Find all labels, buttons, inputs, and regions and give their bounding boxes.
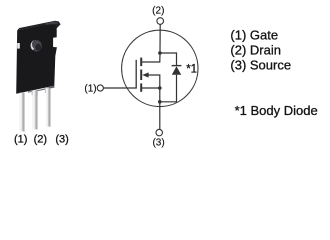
leg 3 tab bbox=[45, 88, 51, 93]
MOSFET channel dash bottom bbox=[140, 83, 142, 91]
body diode anode wire bbox=[160, 75, 177, 102]
svg-text:(3): (3) bbox=[55, 133, 68, 145]
mounting hole bbox=[32, 40, 42, 51]
MOSFET channel dash top bbox=[140, 58, 142, 67]
svg-text:(3) Source: (3) Source bbox=[230, 57, 291, 72]
terminal (3) circle bbox=[156, 129, 163, 136]
mounting hole inner dark bbox=[35, 44, 41, 51]
package Q1 top face highlight bbox=[45, 21, 59, 25]
package Q1 top face bbox=[17, 21, 60, 31]
svg-text:(1) Gate: (1) Gate bbox=[230, 27, 278, 42]
leg 3 bbox=[46, 88, 50, 126]
gate wire bbox=[104, 87, 137, 89]
leg 2 tab bbox=[32, 90, 38, 95]
left edge reflection bbox=[17, 43, 20, 49]
leg 2 bbox=[33, 91, 38, 130]
svg-text:(2): (2) bbox=[34, 133, 47, 145]
mounting hole rim highlight bbox=[31, 40, 37, 50]
schematic enclosure circle bbox=[122, 30, 198, 106]
MOSFET gate bar bbox=[135, 60, 137, 89]
svg-text:(3): (3) bbox=[152, 138, 164, 149]
svg-text:*1: *1 bbox=[186, 63, 197, 75]
body wire bbox=[148, 75, 160, 87]
body diode cathode bar bbox=[172, 65, 182, 67]
body diode D1 triangle bbox=[172, 66, 181, 75]
source stub wire bbox=[141, 87, 160, 89]
terminal (2) circle bbox=[157, 18, 164, 25]
junction dot diode anode branch bbox=[158, 100, 162, 104]
svg-text:*1 Body Diode: *1 Body Diode bbox=[235, 103, 318, 118]
body arrow head bbox=[142, 72, 148, 77]
svg-text:(2) Drain: (2) Drain bbox=[230, 42, 281, 57]
svg-text:(1): (1) bbox=[14, 133, 27, 145]
leg 1 bbox=[20, 93, 25, 132]
MOSFET channel dash middle bbox=[140, 70, 142, 81]
terminal (1) circle bbox=[97, 85, 103, 91]
junction dot drain bbox=[158, 51, 162, 55]
package Q1 body front face bbox=[16, 24, 57, 94]
junction dot source bbox=[158, 86, 162, 90]
body diode branch wire top bbox=[160, 53, 177, 65]
svg-text:(1): (1) bbox=[84, 84, 96, 95]
drain wire from terminal (2) bbox=[141, 24, 160, 62]
package bottom edge sliver bbox=[28, 86, 55, 93]
source wire down to terminal bbox=[159, 88, 161, 130]
svg-text:(2): (2) bbox=[152, 5, 164, 16]
